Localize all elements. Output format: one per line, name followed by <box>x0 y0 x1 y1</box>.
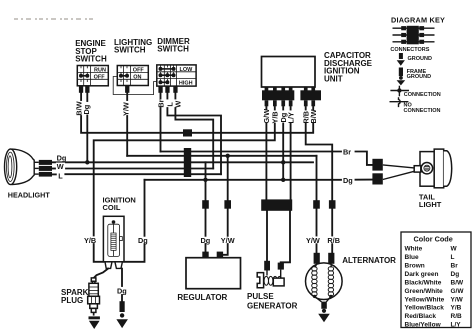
svg-text:GROUND: GROUND <box>408 56 432 62</box>
svg-text:Color Code: Color Code <box>414 235 453 244</box>
connector pin alternator Y/W <box>313 200 320 209</box>
spark plug P1 <box>88 278 100 316</box>
wire Dg engine stop to ground line <box>86 93 88 101</box>
svg-text:L: L <box>451 254 455 261</box>
svg-text:SWITCH: SWITCH <box>114 46 146 55</box>
svg-text:REGULATOR: REGULATOR <box>177 293 227 302</box>
ignition coil feet <box>105 262 112 269</box>
wire B/W engine stop to CDI <box>80 93 82 100</box>
svg-text:Br: Br <box>343 147 351 156</box>
coil ground wire Dg <box>121 269 123 286</box>
wire Y/W lighting switch to Y/W line <box>126 93 128 100</box>
svg-text:R/B: R/B <box>327 236 340 245</box>
ignition coil T1 <box>103 216 124 261</box>
connector block on B/W bus <box>183 129 192 136</box>
junction dot Dg-stop on Dg line <box>85 160 89 164</box>
svg-text:Black/White: Black/White <box>405 279 442 286</box>
svg-text:HIGH: HIGH <box>179 81 193 87</box>
svg-text:GROUND: GROUND <box>407 74 431 80</box>
svg-text:PLUG: PLUG <box>61 296 83 305</box>
svg-text:OFF: OFF <box>133 67 145 73</box>
svg-text:W: W <box>57 162 64 171</box>
dimmer switch pins <box>158 86 162 93</box>
svg-text:Blue/Yellow: Blue/Yellow <box>405 322 442 329</box>
svg-text:HEADLIGHT: HEADLIGHT <box>8 191 51 200</box>
spark plug ground <box>89 316 100 319</box>
CDI unit U1 <box>262 57 316 88</box>
switch link wire <box>113 77 157 95</box>
dimmer switch <box>157 65 196 87</box>
CDI connector block A <box>262 90 294 100</box>
svg-text:Brown: Brown <box>405 263 425 270</box>
alternator G1 <box>306 263 343 302</box>
svg-text:SWITCH: SWITCH <box>75 54 107 63</box>
junction dot Dg-CDI on Dg line <box>281 160 285 164</box>
svg-text:L/Y: L/Y <box>286 112 295 123</box>
svg-text:Br: Br <box>451 263 459 270</box>
headlight connector <box>39 160 52 165</box>
tail light connector lower <box>372 173 382 184</box>
junction dot regulator Dg on ground bus <box>203 178 207 182</box>
svg-text:G/W: G/W <box>451 288 465 295</box>
svg-text:ALTERNATOR: ALTERNATOR <box>342 256 396 265</box>
svg-text:Dg: Dg <box>82 105 91 115</box>
pulse generator lead G/W <box>266 211 268 262</box>
svg-text:UNIT: UNIT <box>324 74 343 83</box>
ground bus Dg <box>145 179 342 181</box>
wire Y/B bus CDI to coil <box>274 107 276 110</box>
regulator pin stubs <box>202 252 208 258</box>
pulse generator connector pin left <box>264 261 270 271</box>
junction dot Dg-CDI on ground bus <box>281 178 285 182</box>
wire R/B CDI to alternator <box>305 107 307 110</box>
svg-text:White: White <box>405 246 423 253</box>
wire Y/W alternator <box>316 156 318 201</box>
svg-text:Green/White: Green/White <box>405 288 444 295</box>
svg-text:Yellow/White: Yellow/White <box>405 296 445 303</box>
svg-text:RUN: RUN <box>94 67 106 73</box>
svg-text:L/Y: L/Y <box>451 322 462 329</box>
svg-text:LIGHT: LIGHT <box>419 200 442 209</box>
svg-text:CONNECTORS: CONNECTORS <box>390 47 429 53</box>
spark plug HT lead <box>94 269 108 278</box>
label W (headlight) <box>56 163 65 170</box>
svg-text:Y/W: Y/W <box>221 236 235 245</box>
coil frame ground <box>120 313 124 317</box>
svg-text:Y/W: Y/W <box>121 102 130 116</box>
tall harness connector block <box>184 148 191 177</box>
svg-text:W: W <box>174 101 183 108</box>
svg-text:Red/Black: Red/Black <box>405 313 437 320</box>
svg-text:GENERATOR: GENERATOR <box>247 301 298 310</box>
wire L/Y CDI to pulse connector <box>290 107 292 110</box>
wire Dg coil drop <box>144 180 146 236</box>
svg-text:Dg: Dg <box>451 271 460 278</box>
svg-text:Dg: Dg <box>343 176 353 185</box>
connector pin alternator R/B <box>329 200 336 209</box>
color code rows <box>405 246 465 329</box>
pulse generator lead L/Y <box>281 211 290 262</box>
pulse generator connector pin right <box>278 263 284 270</box>
wire Dg regulator tap <box>205 162 207 200</box>
svg-text:R/B: R/B <box>451 313 463 320</box>
pulse generator PG <box>257 270 284 288</box>
headlight <box>5 149 39 185</box>
alternator ground pin <box>321 302 327 309</box>
wire L dimmer jog <box>166 93 168 99</box>
svg-text:LOW: LOW <box>180 67 194 73</box>
wire Br line to tail light <box>161 151 342 153</box>
wire Dg CDI to grounds <box>282 107 284 110</box>
wire Br dimmer down <box>160 93 162 99</box>
svg-text:Dg: Dg <box>138 236 148 245</box>
alternator frame ground <box>322 309 326 313</box>
lighting switch <box>117 66 148 86</box>
lighting switch pin <box>125 86 129 93</box>
engine stop switch <box>77 66 108 86</box>
label L (headlight) <box>57 172 65 180</box>
key connector symbol <box>393 27 435 29</box>
svg-text:ON: ON <box>133 74 141 80</box>
svg-text:SWITCH: SWITCH <box>157 45 189 54</box>
svg-text:Y/B: Y/B <box>84 236 96 245</box>
svg-text:Br: Br <box>156 99 165 107</box>
svg-text:Dark green: Dark green <box>405 271 439 278</box>
wire Y/W regulator tap <box>227 156 229 201</box>
svg-text:OFF: OFF <box>94 74 106 80</box>
engine stop switch pins <box>79 86 83 93</box>
svg-text:CONNECTION: CONNECTION <box>404 92 441 98</box>
svg-text:B/W: B/W <box>309 109 318 123</box>
svg-text:Y/B: Y/B <box>451 305 462 312</box>
wire W line (headlight) <box>52 168 56 170</box>
wire Y/W line <box>127 155 316 157</box>
svg-text:Y/W: Y/W <box>306 236 320 245</box>
key connection symbol <box>390 90 409 92</box>
CDI connector lower pins <box>265 100 269 106</box>
connector pin regulator Y/W <box>224 200 231 209</box>
faint watermark dashes <box>14 18 94 20</box>
svg-text:Dg: Dg <box>117 286 127 295</box>
pulse generator connector block <box>261 199 292 210</box>
color code box <box>401 232 471 328</box>
DIAGRAM KEY <box>390 16 446 114</box>
coil ground connector pin <box>120 301 125 312</box>
svg-text:W: W <box>451 246 458 253</box>
key frame ground symbol <box>399 68 403 77</box>
tail light <box>414 149 452 188</box>
tail light wires <box>383 165 414 168</box>
svg-text:Y/W: Y/W <box>451 296 464 303</box>
svg-text:CONNECTION: CONNECTION <box>404 108 441 114</box>
svg-text:B/W: B/W <box>451 279 465 286</box>
key no-connection symbol <box>390 101 409 103</box>
wire W dimmer jog <box>174 93 176 99</box>
svg-text:Yellow/Black: Yellow/Black <box>405 305 445 312</box>
wire Dg line (headlight ground) <box>52 161 313 163</box>
svg-text:Blue: Blue <box>405 254 419 261</box>
tail light connector upper <box>372 159 382 171</box>
wire L line (headlight) <box>52 173 56 175</box>
CDI connector upper pins <box>265 87 269 91</box>
svg-text:COIL: COIL <box>103 203 121 212</box>
regulator <box>186 258 241 289</box>
svg-text:Dg: Dg <box>201 236 211 245</box>
connector pin regulator Dg <box>202 200 209 209</box>
junction dot regulator Y/W on Y/W line <box>226 154 230 158</box>
CDI connector block B <box>300 90 321 100</box>
svg-text:L: L <box>58 171 63 180</box>
alternator pin stubs <box>314 253 320 264</box>
svg-text:PULSE: PULSE <box>247 292 274 301</box>
svg-text:DIAGRAM KEY: DIAGRAM KEY <box>391 16 445 25</box>
wire G/W CDI to pulse connector <box>265 107 267 110</box>
key ground symbol <box>399 53 403 59</box>
